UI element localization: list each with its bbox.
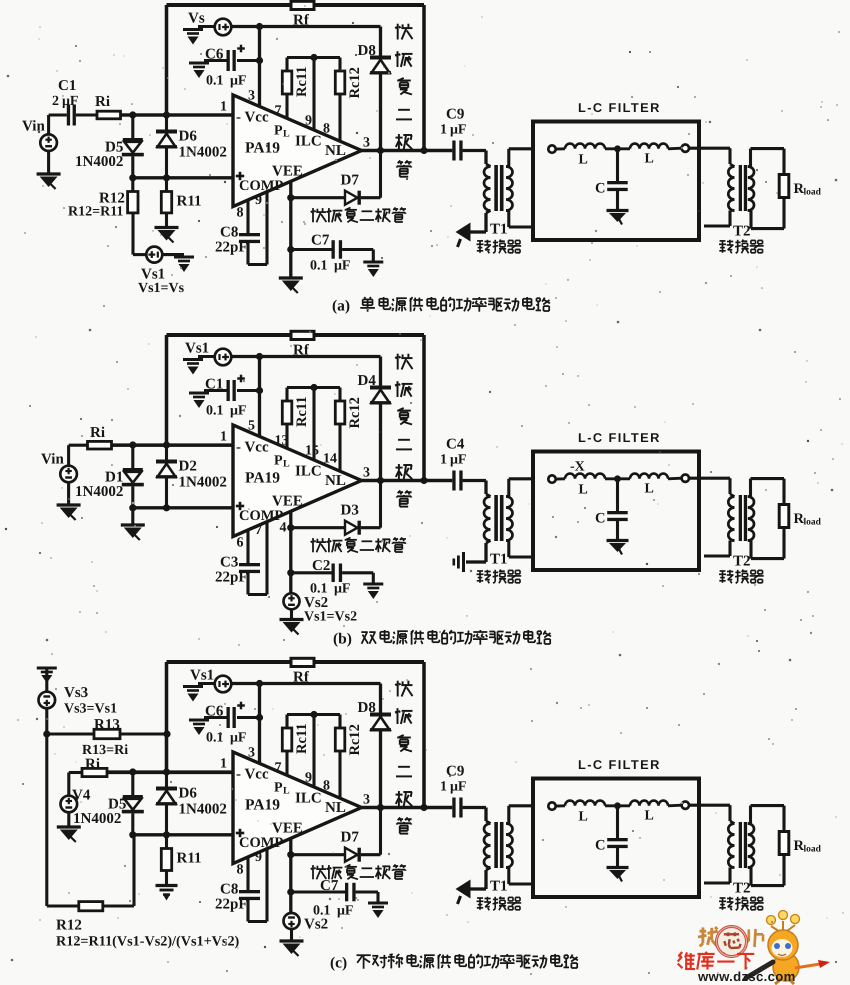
svg-text:L: L <box>645 152 654 167</box>
svg-text:1: 1 <box>220 100 227 115</box>
svg-text:C1: C1 <box>58 78 76 94</box>
svg-text:Ri: Ri <box>90 425 105 441</box>
svg-text:1N4002: 1N4002 <box>75 154 123 170</box>
svg-text:T1: T1 <box>490 879 508 895</box>
svg-text:7: 7 <box>275 761 282 776</box>
svg-text:C2: C2 <box>312 558 330 574</box>
svg-text:D6: D6 <box>179 129 198 145</box>
svg-text:- Vcc: - Vcc <box>236 767 269 783</box>
svg-text:C6: C6 <box>205 47 224 63</box>
svg-text:μF: μF <box>62 94 79 109</box>
svg-text:9: 9 <box>255 850 262 865</box>
svg-text:L: L <box>579 153 588 168</box>
svg-text:7: 7 <box>255 523 262 538</box>
svg-text:3: 3 <box>363 136 370 151</box>
svg-text:0.1: 0.1 <box>206 731 224 746</box>
svg-text:6: 6 <box>237 536 244 551</box>
svg-text:Vin: Vin <box>22 119 45 135</box>
svg-text:T2: T2 <box>733 224 751 240</box>
svg-text:(a): (a) <box>332 298 350 315</box>
svg-text:(c): (c) <box>330 955 347 972</box>
svg-text:PA19: PA19 <box>245 140 280 157</box>
svg-text:C8: C8 <box>220 225 238 241</box>
svg-text:1N4002: 1N4002 <box>179 802 227 818</box>
svg-text:C9: C9 <box>446 764 464 780</box>
svg-text:Rc11: Rc11 <box>294 723 310 754</box>
svg-text:NL: NL <box>325 473 346 489</box>
svg-text:8: 8 <box>237 863 244 878</box>
svg-text:- Vcc: - Vcc <box>236 110 269 126</box>
svg-text:Rc11: Rc11 <box>294 396 310 427</box>
svg-text:1: 1 <box>220 757 227 772</box>
svg-text:1N4002: 1N4002 <box>179 475 227 491</box>
svg-text:Rc11: Rc11 <box>294 66 310 97</box>
svg-text:ILC: ILC <box>295 464 322 480</box>
svg-text:D3: D3 <box>341 503 359 519</box>
svg-text:9: 9 <box>305 771 312 786</box>
svg-text:μF: μF <box>450 453 467 468</box>
svg-text:14: 14 <box>323 452 337 467</box>
svg-text:9: 9 <box>255 193 262 208</box>
svg-text:22pF: 22pF <box>215 897 248 913</box>
svg-text:8: 8 <box>237 206 244 221</box>
svg-text:COMP: COMP <box>239 508 283 524</box>
svg-text:R11: R11 <box>177 851 202 867</box>
svg-text:(b): (b) <box>333 631 352 648</box>
svg-text:3: 3 <box>363 466 370 481</box>
svg-text:R12=R11(Vs1-Vs2)/(Vs1+Vs2): R12=R11(Vs1-Vs2)/(Vs1+Vs2) <box>56 934 240 950</box>
svg-text:L-C FILTER: L-C FILTER <box>578 100 661 115</box>
svg-text:7: 7 <box>275 104 282 119</box>
svg-text:D7: D7 <box>341 173 360 189</box>
svg-text:PA19: PA19 <box>245 797 280 814</box>
svg-text:C3: C3 <box>220 555 238 571</box>
svg-text:T1: T1 <box>490 222 508 238</box>
svg-text:Ri: Ri <box>95 94 110 110</box>
svg-text:Vs1=Vs: Vs1=Vs <box>138 281 185 296</box>
svg-text:D2: D2 <box>179 459 197 475</box>
svg-text:D7: D7 <box>341 830 360 846</box>
svg-text:P: P <box>274 781 283 796</box>
svg-text:1: 1 <box>220 430 227 445</box>
svg-text:3: 3 <box>248 746 255 761</box>
svg-text:22pF: 22pF <box>215 570 248 586</box>
svg-text:COMP: COMP <box>239 178 283 194</box>
svg-text:μF: μF <box>450 780 467 795</box>
svg-text:Vs: Vs <box>188 11 205 27</box>
svg-text:Vs1=Vs2: Vs1=Vs2 <box>304 610 357 625</box>
svg-text:0.1: 0.1 <box>206 404 224 419</box>
svg-text:C: C <box>595 838 605 854</box>
svg-text:- Vcc: - Vcc <box>236 440 269 456</box>
svg-text:C: C <box>595 181 605 197</box>
svg-text:ILC: ILC <box>295 134 322 150</box>
svg-text:C6: C6 <box>205 704 224 720</box>
svg-text:1N4002: 1N4002 <box>75 484 123 500</box>
svg-text:L: L <box>283 129 290 140</box>
svg-text:0.1: 0.1 <box>310 259 328 274</box>
svg-text:L: L <box>579 810 588 825</box>
svg-text:3: 3 <box>363 793 370 808</box>
svg-text:15: 15 <box>305 444 319 459</box>
svg-text:5: 5 <box>248 419 255 434</box>
svg-text:ILC: ILC <box>295 791 322 807</box>
svg-text:Vs1: Vs1 <box>190 668 214 684</box>
svg-text:C1: C1 <box>205 377 223 393</box>
svg-text:D6: D6 <box>179 786 198 802</box>
svg-text:L: L <box>645 809 654 824</box>
svg-text:2: 2 <box>52 94 59 109</box>
svg-text:C8: C8 <box>220 882 238 898</box>
svg-text:μF: μF <box>450 123 467 138</box>
svg-text:1N4002: 1N4002 <box>179 145 227 161</box>
svg-text:T2: T2 <box>733 554 751 570</box>
svg-text:3: 3 <box>248 89 255 104</box>
svg-text:R11: R11 <box>177 194 202 210</box>
svg-text:R12: R12 <box>56 918 82 934</box>
svg-text:R12=R11: R12=R11 <box>68 205 123 220</box>
svg-text:1: 1 <box>440 780 447 795</box>
svg-text:Vs2: Vs2 <box>304 917 328 933</box>
svg-text:www.dzsc.com: www.dzsc.com <box>697 969 796 984</box>
svg-text:T2: T2 <box>733 881 751 897</box>
svg-text:C4: C4 <box>446 437 465 453</box>
svg-text:V4: V4 <box>72 788 91 804</box>
svg-text:load: load <box>804 518 822 528</box>
svg-text:1N4002: 1N4002 <box>73 811 121 827</box>
svg-text:NL: NL <box>325 143 346 159</box>
svg-text:μF: μF <box>337 904 354 919</box>
svg-text:Rc12: Rc12 <box>347 67 363 98</box>
svg-text:L-C FILTER: L-C FILTER <box>578 757 661 772</box>
svg-text:Vin: Vin <box>41 452 64 468</box>
svg-text:L: L <box>645 482 654 497</box>
svg-text:8: 8 <box>323 779 330 794</box>
svg-text:13: 13 <box>275 434 289 449</box>
svg-text:μF: μF <box>334 582 351 597</box>
svg-text:P: P <box>274 454 283 469</box>
svg-text:μF: μF <box>230 404 247 419</box>
svg-text:C9: C9 <box>446 107 464 123</box>
svg-text:μF: μF <box>230 74 247 89</box>
svg-text:0.1: 0.1 <box>206 74 224 89</box>
svg-text:L: L <box>283 786 290 797</box>
svg-text:Rc12: Rc12 <box>347 397 363 428</box>
svg-text:T1: T1 <box>490 552 508 568</box>
svg-text:Vs1: Vs1 <box>185 341 209 357</box>
svg-text:NL: NL <box>325 800 346 816</box>
svg-text:PA19: PA19 <box>245 470 280 487</box>
svg-text:C: C <box>595 511 605 527</box>
svg-text:C7: C7 <box>320 878 339 894</box>
svg-text:Vs3=Vs1: Vs3=Vs1 <box>64 702 117 717</box>
svg-text:4: 4 <box>280 521 287 536</box>
svg-text:load: load <box>804 188 822 198</box>
svg-text:-X: -X <box>570 460 585 475</box>
svg-text:L: L <box>579 483 588 498</box>
svg-text:μF: μF <box>230 731 247 746</box>
svg-text:P: P <box>274 124 283 139</box>
svg-text:22pF: 22pF <box>215 240 248 256</box>
svg-text:L-C FILTER: L-C FILTER <box>578 430 661 445</box>
svg-text:L: L <box>283 459 290 470</box>
svg-text:COMP: COMP <box>239 835 283 851</box>
svg-text:9: 9 <box>305 114 312 129</box>
svg-text:1: 1 <box>440 453 447 468</box>
svg-text:1: 1 <box>440 123 447 138</box>
svg-text:load: load <box>804 845 822 855</box>
svg-text:8: 8 <box>323 122 330 137</box>
svg-text:Rc12: Rc12 <box>347 724 363 755</box>
svg-text:Vs3: Vs3 <box>64 685 88 701</box>
svg-text:C7: C7 <box>311 233 330 249</box>
svg-text:μF: μF <box>334 259 351 274</box>
